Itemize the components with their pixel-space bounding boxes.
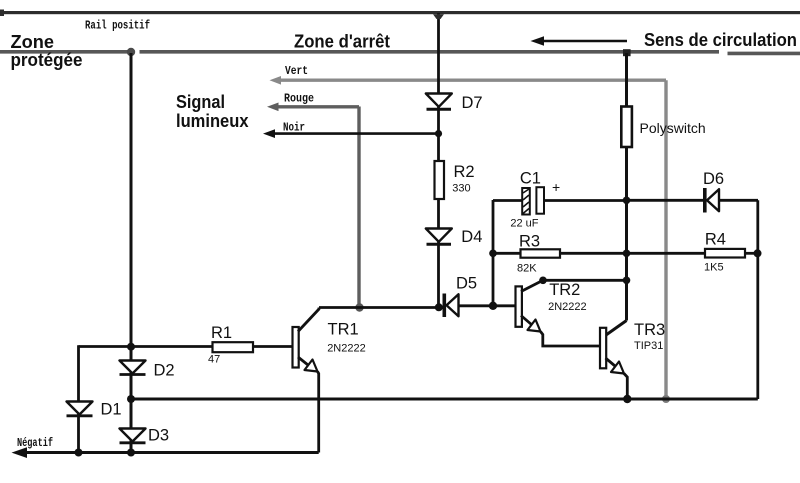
diode D1 bbox=[67, 402, 93, 416]
node D-junction y399 bbox=[127, 395, 135, 403]
svg-text:Négatif: Négatif bbox=[17, 436, 53, 450]
wire right vertical x758 bbox=[756, 200, 759, 399]
node TR2 base / R3 / C1 left bbox=[489, 302, 497, 310]
label Zone protegee bbox=[11, 32, 83, 70]
polyswitch body bbox=[621, 107, 632, 148]
svg-text:Rail positif: Rail positif bbox=[85, 19, 150, 33]
transistor TR1 bbox=[293, 308, 320, 453]
diode D4 bbox=[426, 229, 452, 245]
node TR3 emitter junction bbox=[623, 395, 631, 403]
svg-text:protégée: protégée bbox=[11, 50, 83, 70]
arrow sens de circulation bbox=[531, 36, 628, 46]
svg-text:22 uF: 22 uF bbox=[510, 218, 538, 230]
wire C1 to D6 bbox=[627, 199, 703, 202]
node R3/R4 mid junction bbox=[623, 250, 631, 258]
node base feed x131 bbox=[127, 343, 135, 351]
svg-text:82K: 82K bbox=[517, 262, 537, 274]
node TR2 collector junction bbox=[623, 277, 631, 285]
svg-text:R4: R4 bbox=[705, 231, 726, 249]
svg-text:Rouge: Rouge bbox=[284, 92, 314, 106]
resistor R3 bbox=[493, 249, 627, 257]
node R4 right bbox=[754, 249, 762, 257]
svg-text:1K5: 1K5 bbox=[704, 262, 724, 274]
wire rouge (red signal) bbox=[267, 103, 359, 306]
wire TR2 collector run bbox=[543, 279, 627, 282]
svg-text:TR2: TR2 bbox=[549, 281, 580, 299]
svg-text:C1: C1 bbox=[520, 170, 541, 188]
node polyswitch rail tap bbox=[623, 49, 631, 56]
svg-text:D1: D1 bbox=[101, 401, 122, 419]
svg-text:2N2222: 2N2222 bbox=[327, 343, 366, 355]
wire rail positif (top bar) bbox=[0, 10, 800, 17]
node D1 bottom bbox=[75, 449, 83, 457]
svg-text:TR3: TR3 bbox=[634, 321, 665, 339]
node C1 right / polyswitch column bbox=[623, 197, 631, 205]
wire noir (black signal) bbox=[263, 129, 438, 138]
svg-text:Vert: Vert bbox=[285, 64, 308, 78]
wire zone d'arret rail (gray) bbox=[140, 50, 720, 54]
wire protected rail x131 bbox=[130, 53, 133, 453]
svg-text:Zone d'arrêt: Zone d'arrêt bbox=[294, 32, 390, 52]
svg-text:D7: D7 bbox=[462, 94, 483, 112]
svg-text:R3: R3 bbox=[519, 233, 540, 251]
label Signal lumineux bbox=[176, 92, 249, 131]
transistor TR2 bbox=[493, 280, 600, 346]
svg-text:D6: D6 bbox=[703, 170, 724, 188]
node R3 left bbox=[489, 250, 497, 258]
node rouge to TR1 collector bbox=[355, 303, 363, 311]
wire positive drop x438 bbox=[433, 13, 444, 307]
resistor R1 bbox=[213, 342, 293, 352]
svg-text:Zone: Zone bbox=[11, 32, 55, 52]
svg-text:TIP31: TIP31 bbox=[634, 340, 663, 352]
diode D6 bbox=[703, 188, 758, 213]
svg-text:D3: D3 bbox=[148, 427, 169, 445]
wire D1 branch x78.5 bbox=[77, 345, 80, 452]
wire emitter rail y399 bbox=[131, 398, 758, 401]
wire base feed y346.5 bbox=[79, 345, 213, 348]
diode D5 bbox=[443, 294, 492, 318]
node noir junction on positive drop bbox=[435, 130, 442, 137]
capacitor C1 bbox=[493, 187, 627, 214]
diode D2 bbox=[120, 361, 146, 375]
node TR2 collector top bbox=[539, 277, 547, 285]
wire right rail segment (gray) bbox=[728, 52, 800, 56]
node rail junction at x131 bbox=[127, 48, 135, 56]
svg-text:D5: D5 bbox=[456, 275, 477, 293]
svg-text:Signal: Signal bbox=[176, 92, 225, 112]
wire negatif rail y452.5 bbox=[12, 447, 319, 458]
diode D3 bbox=[120, 429, 146, 443]
svg-text:Polyswitch: Polyswitch bbox=[640, 120, 706, 136]
svg-text:TR1: TR1 bbox=[328, 321, 359, 339]
svg-text:47: 47 bbox=[208, 354, 220, 366]
wire zone protegee rail (gray) bbox=[0, 50, 128, 54]
wire polyswitch column x626.5 bbox=[625, 53, 628, 321]
transistor TR3 bbox=[600, 321, 627, 399]
svg-text:D4: D4 bbox=[461, 228, 482, 246]
resistor R2 bbox=[435, 161, 445, 199]
svg-text:R1: R1 bbox=[211, 324, 232, 342]
wire TR1 collector to D5 node bbox=[319, 306, 437, 309]
svg-text:+: + bbox=[552, 179, 560, 195]
svg-text:D2: D2 bbox=[154, 362, 175, 380]
diode D7 bbox=[426, 94, 452, 110]
wire left branch vertical x493 bbox=[492, 200, 495, 306]
svg-text:Sens de circulation: Sens de circulation bbox=[644, 30, 797, 50]
svg-text:330: 330 bbox=[452, 183, 470, 195]
svg-text:2N2222: 2N2222 bbox=[548, 301, 587, 313]
node vert to emitter rail bbox=[662, 395, 670, 403]
resistor R4 bbox=[627, 249, 758, 258]
svg-text:R2: R2 bbox=[454, 163, 475, 181]
svg-text:lumineux: lumineux bbox=[176, 111, 249, 131]
wire vert (green signal) bbox=[270, 76, 667, 398]
node D5 cathode junction bbox=[435, 303, 443, 311]
node D3 bottom bbox=[127, 449, 135, 457]
